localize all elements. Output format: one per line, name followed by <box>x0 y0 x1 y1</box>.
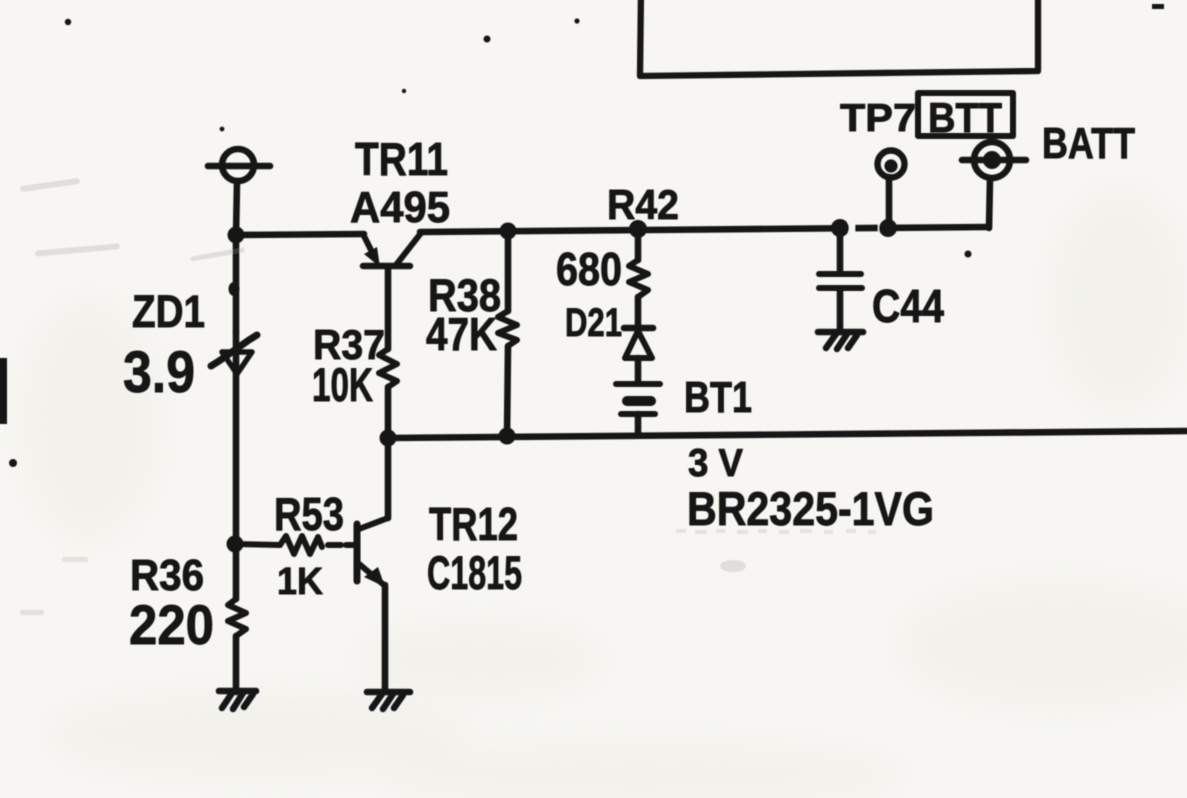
resistor R42 (wire + zigzag) <box>629 229 648 327</box>
boxed label BTT <box>918 93 1013 141</box>
ground (C44) <box>818 332 863 349</box>
transistor TR11 (PNP A495) <box>363 233 421 267</box>
ground (TR12 emitter) <box>367 692 410 709</box>
wire: bottom battery rail <box>388 431 1187 438</box>
svg-text:A495: A495 <box>350 183 450 232</box>
diode D21 <box>624 328 653 382</box>
scan speck top middle <box>484 36 491 43</box>
svg-text:3.9: 3.9 <box>123 340 195 405</box>
faint smudge right of C1815 <box>720 560 746 572</box>
resistor R37 (zigzag) <box>379 349 397 387</box>
connector BATT <box>962 142 1026 228</box>
IC box (top, partially cut off) <box>640 0 1038 76</box>
wire: connector down to rail corner <box>236 181 237 236</box>
wire: left vertical (connector to zener) <box>233 235 240 332</box>
faint marks bottom left <box>20 557 88 615</box>
svg-text:3 V: 3 V <box>688 442 743 485</box>
svg-text:D21: D21 <box>565 301 622 345</box>
faint dotted artifact under BR2325 <box>676 529 876 534</box>
node: TR12 base wire junction <box>227 536 244 553</box>
battery BT1 <box>616 384 660 435</box>
svg-text:C44: C44 <box>872 280 944 332</box>
svg-text:TR12: TR12 <box>429 498 518 550</box>
wire: top rail left segment <box>236 234 364 235</box>
node: TP7 junction <box>879 219 897 237</box>
capacitor C44 <box>819 228 862 332</box>
faint streaks left margin <box>20 178 245 262</box>
node: rail corner junction <box>228 227 245 244</box>
svg-text:47K: 47K <box>426 308 497 360</box>
resistor R53 (zigzag) <box>280 536 322 554</box>
svg-text:C1815: C1815 <box>427 546 522 599</box>
wire: to R53 <box>235 544 280 545</box>
wire: R36 to ground <box>233 636 240 692</box>
scan speck near BATT <box>965 251 972 258</box>
scan speck top right <box>1152 4 1164 9</box>
scan speck above TR11 <box>402 89 406 93</box>
node: R38 bottom junction <box>499 428 516 445</box>
partial element at left edge <box>0 358 7 424</box>
svg-text:BR2325-1VG: BR2325-1VG <box>687 482 934 535</box>
ground (R36) <box>219 691 256 709</box>
zener diode ZD1 <box>211 332 257 599</box>
wire: top rail right segment <box>420 227 988 232</box>
wire: TR12 emitter down <box>382 585 389 691</box>
svg-text:680: 680 <box>556 243 622 295</box>
svg-text:BATT: BATT <box>1042 119 1135 168</box>
test point TP7 <box>878 151 905 229</box>
scan speck top left <box>65 19 71 25</box>
svg-text:220: 220 <box>129 593 214 656</box>
wire gap artifacts on rail <box>848 220 884 232</box>
svg-text:10K: 10K <box>312 358 373 411</box>
wire: R37 to bottom rail <box>385 387 392 438</box>
wire: R53 to TR12 base (dash) <box>328 542 341 548</box>
wire: TR11 base down to R37 <box>385 268 392 349</box>
node: blob on left vertical <box>229 282 240 296</box>
node: R38 top junction <box>500 223 517 240</box>
scan speck top middle-right <box>574 18 579 23</box>
node: C44 top junction <box>831 219 849 237</box>
node: battery rail junction at R37/TR12 <box>380 430 397 447</box>
svg-text:BTT: BTT <box>928 94 1002 141</box>
wire: TR12 collector up to rail <box>385 438 392 518</box>
transistor TR12 (NPN C1815) <box>357 518 388 587</box>
svg-text:TR11: TR11 <box>355 133 448 185</box>
svg-text:ZD1: ZD1 <box>132 286 205 337</box>
svg-text:R53: R53 <box>274 488 344 540</box>
svg-text:BT1: BT1 <box>684 373 752 422</box>
svg-text:R42: R42 <box>607 181 679 228</box>
scan speck left of connector <box>220 127 225 132</box>
svg-text:1K: 1K <box>277 561 324 603</box>
connector terminal (top left supply input) <box>208 149 270 181</box>
resistor R38 (wire + zigzag) <box>498 231 517 437</box>
scan speck left <box>9 459 17 467</box>
resistor R36 (zigzag) <box>228 599 246 636</box>
svg-text:TP7: TP7 <box>840 97 916 140</box>
node: R42 top junction <box>629 220 647 238</box>
